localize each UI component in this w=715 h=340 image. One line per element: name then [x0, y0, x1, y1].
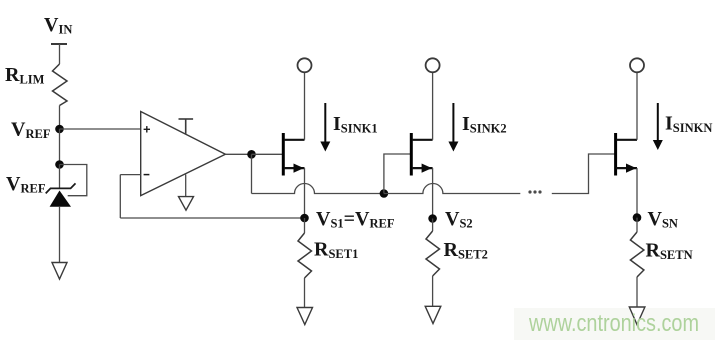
wire Q1 drain up	[304, 72, 306, 140]
terminal circle QN	[630, 58, 644, 72]
wire node to zener cathode	[59, 165, 61, 189]
current arrow ISINKN	[653, 103, 663, 150]
svg-text:ISINK1: ISINK1	[333, 113, 378, 136]
svg-text:RSET2: RSET2	[444, 239, 488, 262]
wire VSN to RSETN	[636, 218, 638, 232]
node opamp output dot	[247, 150, 256, 159]
wire feedback vertical	[119, 175, 121, 218]
ground RSET1 arrow	[297, 308, 313, 325]
wire RLIM to VREF node	[59, 106, 61, 130]
op-amp U1 body	[141, 112, 226, 196]
label ISINK1	[333, 113, 378, 136]
ellipsis dots on bus	[528, 190, 541, 193]
ground RSET2 arrow	[425, 306, 441, 323]
wire VS1 to RSET1	[304, 218, 306, 233]
transistor Q1 channel bar	[282, 133, 285, 176]
current arrow ISINK2	[448, 103, 458, 152]
resistor RSET2	[426, 231, 440, 276]
node gate bus Q2 dot	[380, 189, 389, 198]
svg-text:RLIM: RLIM	[5, 64, 45, 87]
transistor Q1 source arrow	[294, 164, 304, 173]
svg-text:www.cntronics.com: www.cntronics.com	[528, 310, 699, 337]
wire gate bus drop	[251, 154, 253, 193]
wire opamp minus input	[120, 174, 140, 176]
svg-text:VS1=VREF: VS1=VREF	[316, 208, 395, 231]
wire QN drain up	[636, 72, 638, 140]
wire opamp output	[225, 153, 251, 155]
terminal VIN t-bar	[51, 43, 67, 45]
label RSETN	[646, 240, 693, 263]
transistor Q2 drain stub	[412, 139, 433, 141]
zener diode VREF anode triangle	[50, 191, 71, 207]
label VSN	[648, 208, 678, 231]
terminal circle Q2	[426, 58, 440, 72]
node VREF junction dot	[55, 125, 64, 134]
transistor QN source stub	[616, 167, 637, 169]
wire QN source down to VSN	[636, 168, 638, 218]
wire output to Q1 gate	[252, 153, 284, 155]
svg-text:RSETN: RSETN	[646, 240, 693, 263]
op-amp minus sign	[144, 174, 150, 176]
op-amp power tbar	[179, 119, 194, 135]
wire RSET1 to ground	[304, 278, 306, 308]
svg-text:VIN: VIN	[44, 14, 72, 37]
label VREF node	[11, 119, 51, 142]
transistor QN drain stub	[616, 139, 637, 141]
op-amp plus sign	[144, 126, 150, 132]
wire Q2 gate riser	[384, 154, 411, 194]
wire RSET2 to ground	[432, 276, 434, 306]
wire loop around zener	[60, 165, 87, 196]
wire feedback horizontal to VS1	[120, 217, 304, 219]
transistor Q2 source arrow	[422, 164, 432, 173]
wire RSETN to ground	[636, 277, 638, 307]
current arrow ISINK1	[320, 103, 330, 152]
transistor QN channel bar	[614, 133, 617, 176]
label RSET2	[444, 239, 488, 262]
resistor RSET1	[298, 233, 312, 278]
transistor Q2 channel bar	[410, 133, 413, 176]
svg-text:VREF: VREF	[11, 119, 51, 142]
resistor RSETN	[630, 232, 644, 277]
resistor RLIM	[53, 64, 68, 106]
svg-text:ISINK2: ISINK2	[462, 113, 507, 136]
label VREF zener	[6, 173, 46, 196]
wire gate bus segment 3	[552, 154, 616, 194]
transistor Q2 source stub	[412, 167, 433, 169]
node VSN dot	[633, 213, 642, 222]
zener diode VREF cathode bar	[46, 183, 76, 193]
wire Q1 source down to VS1	[304, 168, 306, 218]
wire VREF node down to zener node	[59, 129, 61, 165]
label RLIM	[5, 64, 45, 87]
node VS2 dot	[428, 214, 437, 223]
node VS1 dot	[300, 214, 309, 223]
wire VREF node to opamp plus input	[60, 128, 141, 130]
svg-text:VREF: VREF	[6, 173, 46, 196]
transistor QN source arrow	[626, 164, 636, 173]
wire gate bus segment 2 with hop over Q2 source	[384, 184, 520, 194]
ground zener arrow	[52, 263, 67, 280]
label VS1=VREF	[316, 208, 395, 231]
wire Q2 drain up	[432, 72, 434, 140]
transistor Q1 drain stub	[284, 139, 305, 141]
svg-text:VS2: VS2	[445, 208, 473, 231]
wire gate bus segment 1 with hop over Q1 source	[252, 184, 384, 194]
terminal circle Q1	[298, 58, 312, 72]
label VS2	[445, 208, 473, 231]
wire Q2 source down to VS2	[432, 168, 434, 218]
wire VIN to RLIM	[59, 44, 61, 64]
wire VS2 to RSET2	[432, 219, 434, 232]
node zener top junction dot	[55, 160, 64, 169]
svg-text:VSN: VSN	[648, 208, 678, 231]
svg-text:ISINKN: ISINKN	[665, 113, 712, 136]
ground RSETN arrow	[629, 307, 645, 325]
label RSET1	[314, 239, 358, 262]
ground op-amp arrow	[179, 197, 194, 211]
watermark band	[514, 308, 715, 340]
label ISINKN	[665, 113, 712, 136]
op-amp ground stem	[185, 175, 187, 197]
label VIN	[44, 14, 72, 37]
svg-text:RSET1: RSET1	[314, 239, 358, 262]
wire zener to ground	[59, 207, 61, 263]
transistor Q1 source stub	[284, 167, 305, 169]
label ISINK2	[462, 113, 507, 136]
